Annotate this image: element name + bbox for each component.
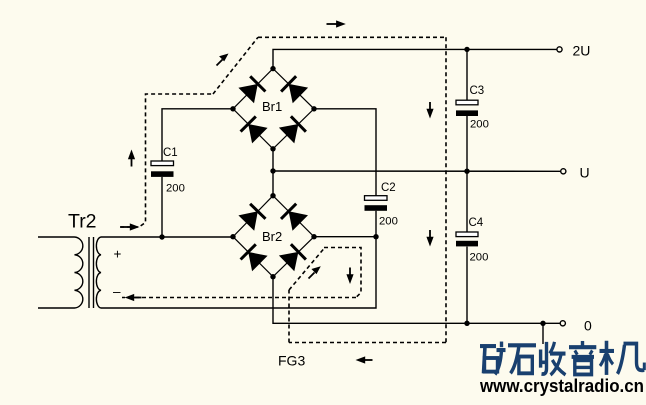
arrow right above top dashed path xyxy=(327,20,346,27)
svg-text:–: – xyxy=(113,284,121,299)
Br2 diode D4 bottom-right xyxy=(279,244,306,271)
node: Br2 left xyxy=(230,234,235,239)
svg-text:+: + xyxy=(114,246,122,261)
arrow diagonal along Br2 lower-right diode xyxy=(309,266,321,278)
char ji xyxy=(600,341,645,375)
wire: Br1 bottom to Br2 top xyxy=(272,149,274,196)
wire: Br1 top lead and 2U rail xyxy=(273,49,557,68)
svg-text:2U: 2U xyxy=(573,43,591,59)
svg-text:200: 200 xyxy=(470,119,489,131)
node: Br1 left xyxy=(230,106,235,111)
svg-text:C3: C3 xyxy=(470,85,485,97)
current path: dashed bottom horizontal xyxy=(289,342,446,344)
node: C1 bottom junction xyxy=(159,234,164,239)
transformer Tr2 primary winding xyxy=(38,237,83,308)
svg-text:0: 0 xyxy=(584,318,592,334)
Br1 diode D2 right-top xyxy=(281,76,308,103)
char shi xyxy=(508,345,536,373)
svg-text:C1: C1 xyxy=(163,147,178,159)
arrow left on return dashed path xyxy=(125,294,142,301)
capacitor C3 xyxy=(456,100,478,116)
arrow left below FG3 dashed box xyxy=(356,356,373,363)
current path: dashed left vertical of bottom box xyxy=(288,290,290,343)
transformer Tr2 core xyxy=(89,237,94,308)
svg-text:C4: C4 xyxy=(469,217,484,229)
svg-text:200: 200 xyxy=(166,183,185,195)
terminal 2U xyxy=(557,47,562,52)
wire: U rail xyxy=(273,170,561,172)
capacitor C1 xyxy=(151,161,174,237)
wire: Br1 right to C2 xyxy=(314,109,376,196)
current path: dashed right vertical xyxy=(445,37,447,342)
svg-text:200: 200 xyxy=(379,216,398,228)
arrow right on lower left dashed path xyxy=(121,223,140,230)
Br2 diode D3 bottom-left xyxy=(241,244,268,271)
terminal 0 xyxy=(560,321,565,326)
current path: dashed from transformer + up left side xyxy=(120,94,213,227)
Br2 diode D1 left-top xyxy=(238,204,265,231)
transformer Tr2 secondary winding xyxy=(96,237,101,308)
Br1 diode D3 bottom-left xyxy=(241,116,268,143)
current path: dashed top horizontal xyxy=(258,36,446,38)
node: U rail / C3-C4 junction xyxy=(464,169,469,174)
arrow up beside left dashed vertical xyxy=(128,150,135,167)
arrow down beside right dashed vertical upper xyxy=(426,102,433,119)
node: Br1 bottom xyxy=(270,146,275,151)
node: C2 bottom junction xyxy=(373,234,378,239)
current path: dashed small loop top and right xyxy=(324,248,361,298)
wire: secondary top to C1 junction and Br1/Br2 left xyxy=(101,236,233,238)
node: Br2 right xyxy=(311,234,316,239)
bridge Br1 outline xyxy=(233,69,314,149)
watermark Chinese characters (drawn strokes) xyxy=(480,341,644,375)
node: 0 rail stub junction xyxy=(540,321,545,326)
capacitor C2 xyxy=(365,196,388,237)
arrow diagonal beside dashed diagonal xyxy=(217,54,229,66)
node: Br1 top xyxy=(270,66,275,71)
current path: dashed return to transformer - xyxy=(122,297,356,299)
svg-text:U: U xyxy=(580,165,590,181)
capacitor C4 xyxy=(456,232,478,246)
wire: Br2 right to C2 junction xyxy=(314,236,376,238)
current path: dashed diagonal along Br2 diode xyxy=(289,249,324,291)
Br1 diode D1 left-top xyxy=(238,76,265,103)
svg-text:200: 200 xyxy=(470,252,489,264)
node: U rail junction at bridge midpoint xyxy=(270,168,275,173)
wire: Br2 bottom lead and 0 rail xyxy=(273,277,560,324)
wire: C2 junction down to secondary bottom wire xyxy=(101,237,376,308)
wire: right rail with C3 C4 xyxy=(466,49,468,323)
arrow down inside small dashed loop xyxy=(346,268,353,285)
node: Br2 bottom xyxy=(270,274,275,279)
wire: C1 branch from Br1 left node xyxy=(162,109,233,161)
wire: stub below 0 rail junction xyxy=(542,323,544,344)
char kuang xyxy=(480,342,506,375)
Br1 diode D4 bottom-right xyxy=(279,116,306,143)
svg-text:C2: C2 xyxy=(381,182,396,194)
node: top rail / C3 junction xyxy=(464,47,469,52)
arrow down beside right dashed vertical lower xyxy=(426,230,433,247)
terminal U xyxy=(561,169,566,174)
char shou xyxy=(540,342,566,375)
Br2 diode D2 right-top xyxy=(281,204,308,231)
char yin xyxy=(569,341,596,374)
current path: dashed diagonal up to top xyxy=(213,37,258,94)
node: Br1 right xyxy=(311,106,316,111)
svg-text:FG3: FG3 xyxy=(278,353,305,369)
svg-text:www.crystalradio.cn: www.crystalradio.cn xyxy=(479,376,644,396)
svg-text:Br2: Br2 xyxy=(262,229,282,244)
svg-text:Br1: Br1 xyxy=(262,99,282,114)
svg-text:Tr2: Tr2 xyxy=(68,211,97,233)
node: Br2 top xyxy=(270,193,275,198)
node: 0 rail / C4 junction xyxy=(464,321,469,326)
bridge Br2 outline xyxy=(233,196,314,277)
